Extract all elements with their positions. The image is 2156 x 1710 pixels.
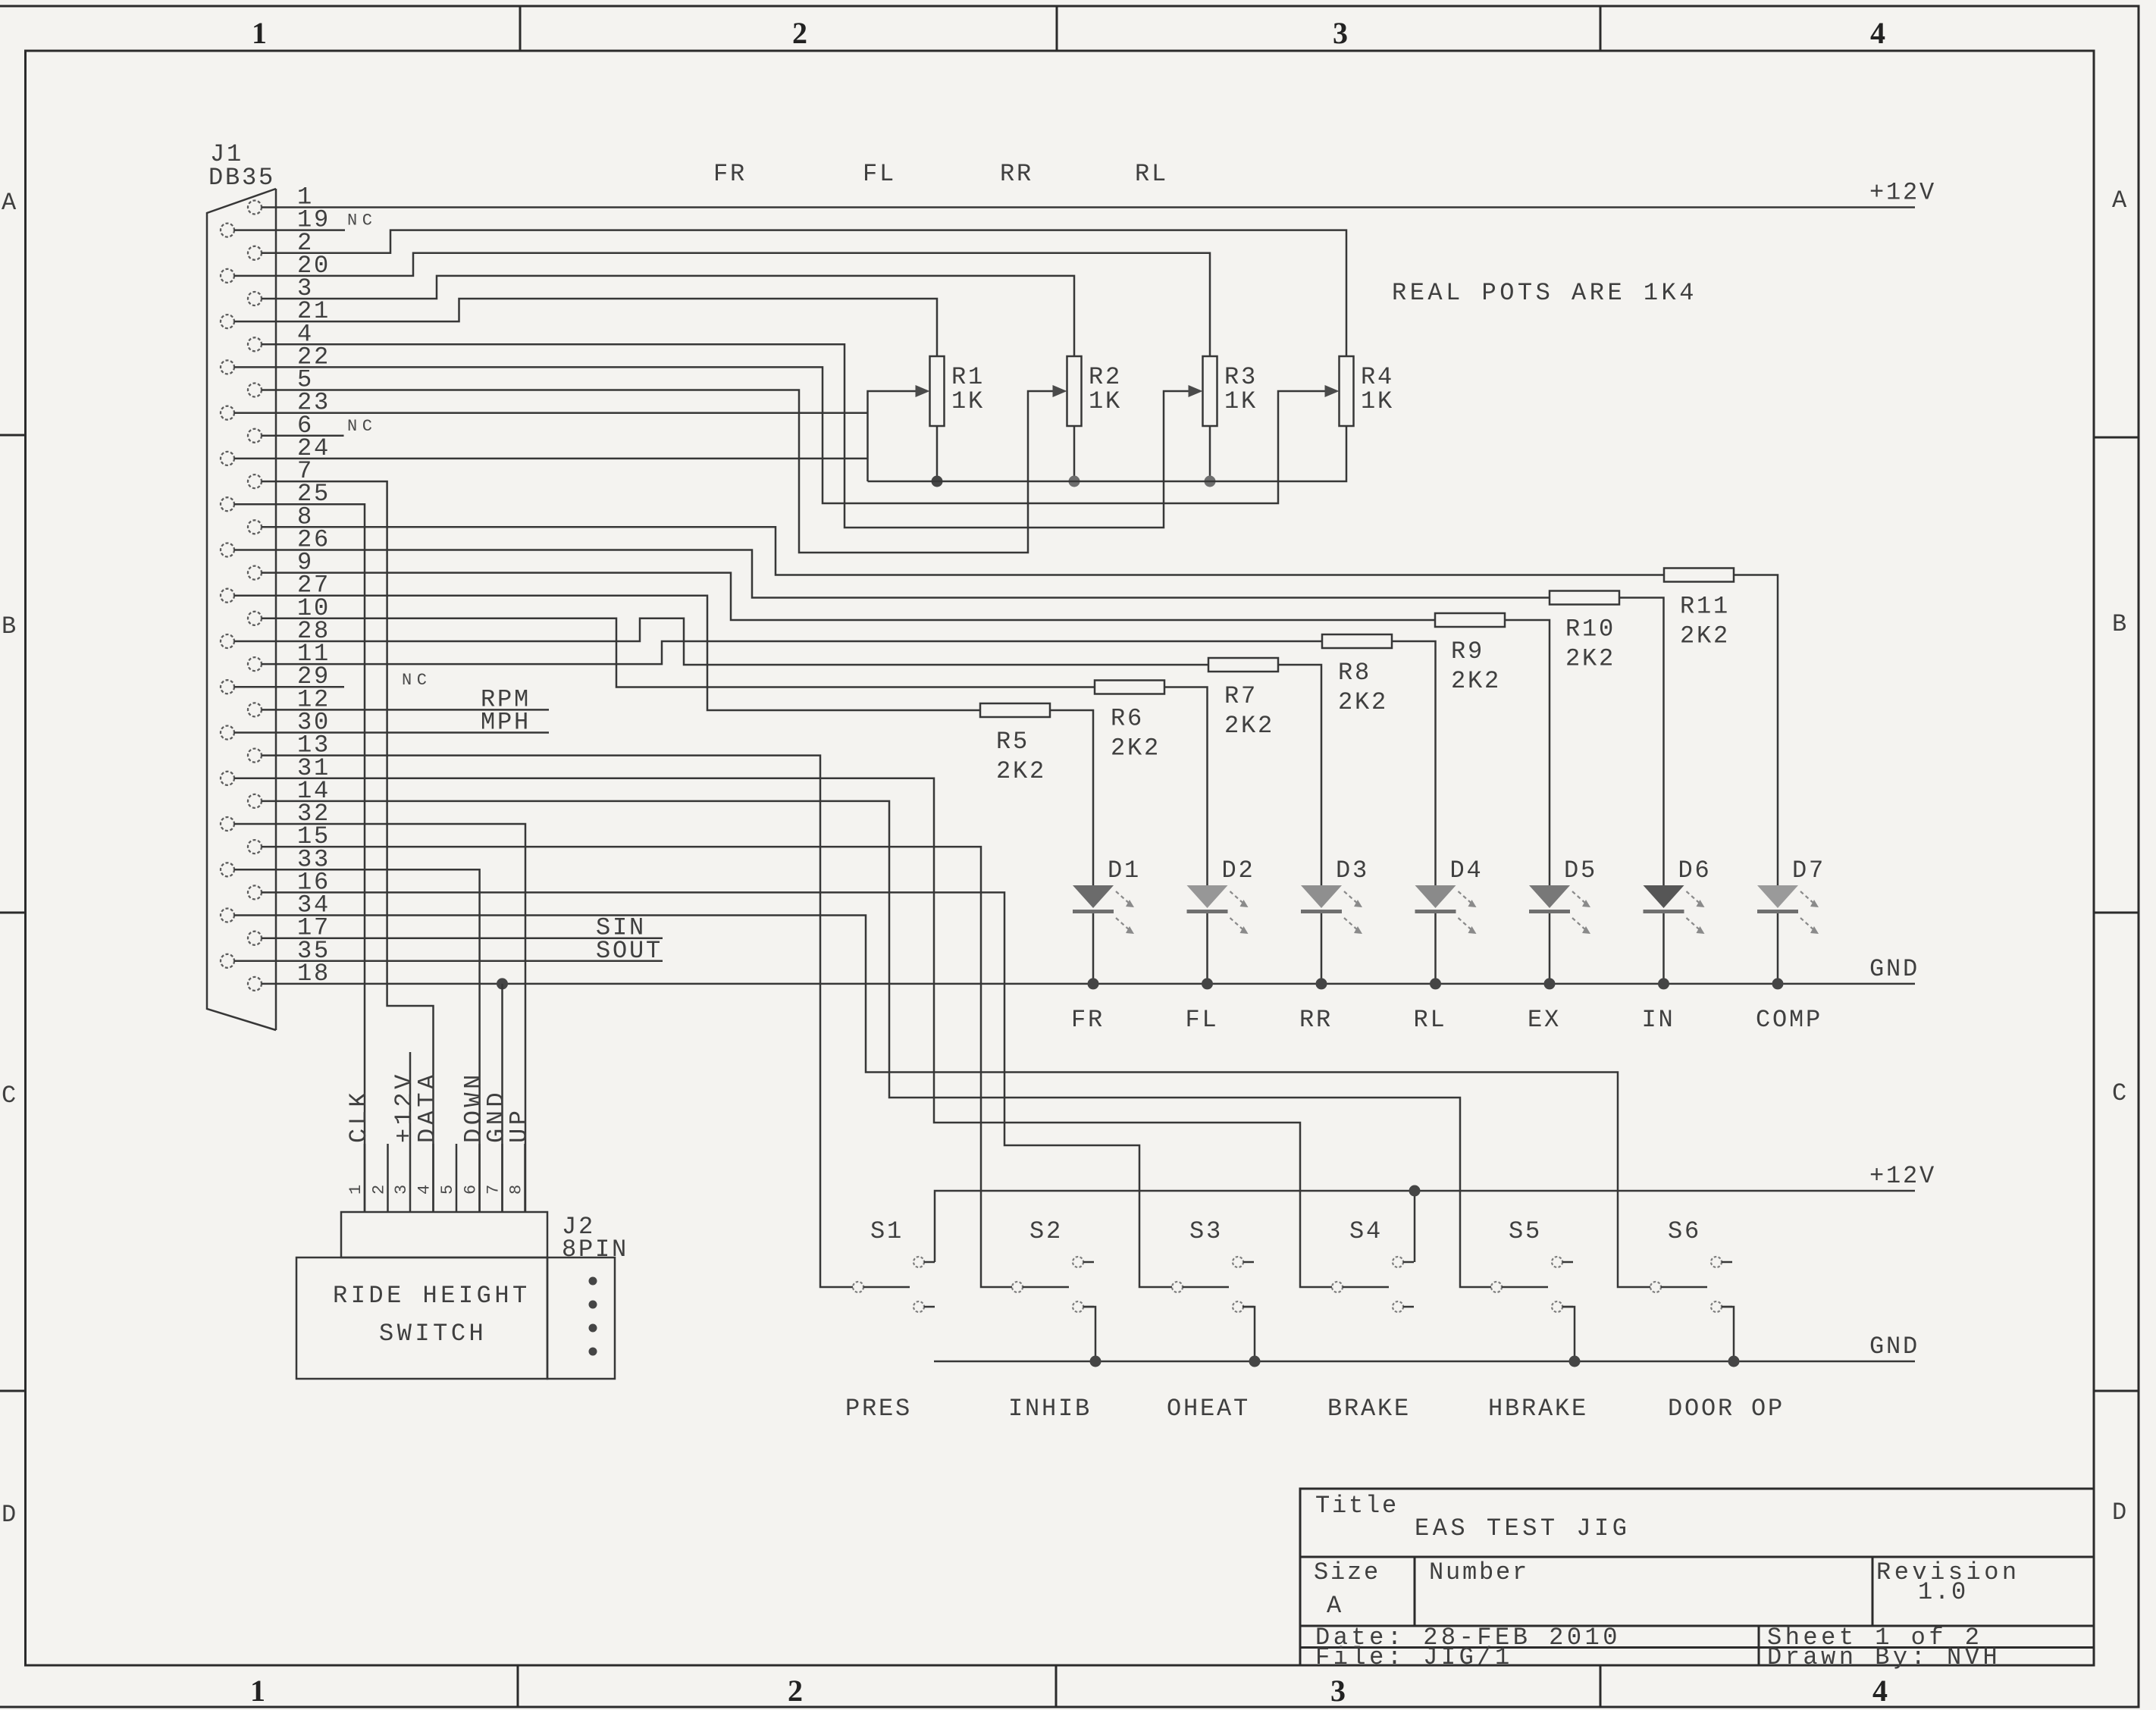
svg-text:2K2: 2K2 bbox=[1111, 734, 1161, 763]
J1 pin 18 circle bbox=[248, 977, 262, 991]
svg-text:RIDE HEIGHT: RIDE HEIGHT bbox=[333, 1282, 531, 1310]
wire R7 to LED column bbox=[1278, 665, 1321, 885]
svg-text:EAS TEST JIG: EAS TEST JIG bbox=[1415, 1514, 1630, 1542]
wire R6 to LED column bbox=[1164, 687, 1208, 886]
svg-text:1: 1 bbox=[252, 16, 267, 50]
svg-text:2K2: 2K2 bbox=[996, 757, 1046, 785]
svg-text:R11: R11 bbox=[1680, 593, 1730, 621]
J2 pin 4 stub bbox=[432, 1144, 434, 1212]
svg-text:S3: S3 bbox=[1189, 1217, 1223, 1245]
J1 pin 22 circle bbox=[221, 360, 234, 374]
J1 pin 1 circle bbox=[248, 201, 262, 215]
J2 body dot 3 bbox=[589, 1324, 597, 1333]
svg-text:EX: EX bbox=[1528, 1006, 1561, 1034]
wire J1.14 to S5 common bbox=[262, 801, 1491, 1287]
svg-text:S5: S5 bbox=[1509, 1217, 1542, 1245]
svg-text:NC: NC bbox=[402, 671, 431, 690]
J2 body dot 1 bbox=[589, 1277, 597, 1286]
svg-text:REAL POTS ARE 1K4: REAL POTS ARE 1K4 bbox=[1392, 279, 1697, 307]
svg-text:R5: R5 bbox=[996, 728, 1029, 756]
connector J2 body box bbox=[547, 1257, 615, 1379]
junction dot GND rail at S6 bbox=[1728, 1356, 1740, 1367]
wire R3 bottom to pot rail bbox=[1209, 426, 1211, 481]
svg-text:+12V: +12V bbox=[1869, 179, 1936, 207]
svg-text:RR: RR bbox=[1299, 1006, 1333, 1034]
title block divider number/revision bbox=[1872, 1557, 1874, 1626]
wire S1 upper throw riser / +12V switch rail bbox=[935, 1191, 1915, 1262]
J2 pin 1 stub bbox=[364, 1144, 366, 1212]
potentiometer R1 body bbox=[930, 356, 945, 426]
svg-text:2K2: 2K2 bbox=[1338, 688, 1388, 716]
wire J1.24 to pot bottom rail bbox=[234, 458, 868, 460]
wire J1.12 RPM net bbox=[262, 709, 549, 711]
resistor R10 body bbox=[1550, 591, 1619, 605]
wire R10 to LED column bbox=[1619, 598, 1664, 886]
svg-text:2K2: 2K2 bbox=[1224, 712, 1274, 740]
J2 pin 3 stub bbox=[409, 1052, 412, 1212]
connector J1 DB35 body outline bbox=[207, 189, 276, 1030]
wire J1.35 SOUT net bbox=[234, 960, 663, 963]
wire R5 to LED column bbox=[1050, 710, 1093, 885]
ride height switch box bbox=[296, 1257, 547, 1379]
wire R1 bottom to pot rail bbox=[936, 426, 939, 481]
wire J1.3 to R2 top bbox=[262, 276, 1074, 356]
J1 pin 30 circle bbox=[221, 726, 234, 740]
wire J1.27 to R5 bbox=[234, 596, 980, 710]
J1 pin 4 circle bbox=[248, 337, 262, 351]
svg-text:CLK: CLK bbox=[345, 1089, 373, 1143]
J1 pin 5 circle bbox=[248, 384, 262, 397]
svg-text:D7: D7 bbox=[1792, 857, 1825, 885]
svg-text:1K: 1K bbox=[1089, 387, 1122, 415]
wire J1.5 to R2 wiper bbox=[262, 390, 1060, 553]
svg-text:SWITCH: SWITCH bbox=[379, 1320, 487, 1348]
switch S3 bbox=[1172, 1257, 1254, 1312]
J1 pin 14 circle bbox=[248, 794, 262, 808]
junction dot GND rail at S2 bbox=[1090, 1356, 1102, 1367]
svg-text:GND: GND bbox=[1869, 1333, 1919, 1361]
svg-text:S4: S4 bbox=[1349, 1217, 1383, 1245]
J1 pin 7 circle bbox=[248, 474, 262, 488]
svg-text:2: 2 bbox=[370, 1179, 389, 1195]
column tick marks top bbox=[520, 6, 1600, 51]
J1 pin 27 circle bbox=[221, 589, 234, 603]
wire pot bottom rail bbox=[868, 426, 1347, 481]
J1 pin 35 circle bbox=[221, 954, 234, 968]
wire J1.32 to J2 pin8 (UP) bbox=[234, 824, 525, 1212]
svg-text:R6: R6 bbox=[1111, 705, 1144, 733]
svg-text:3: 3 bbox=[1330, 1674, 1346, 1708]
svg-text:A: A bbox=[2, 189, 18, 217]
svg-text:B: B bbox=[2112, 610, 2129, 638]
J1 pin 34 circle bbox=[221, 909, 234, 922]
svg-text:RR: RR bbox=[1000, 160, 1033, 188]
wire S5 lower throw to GND rail bbox=[1562, 1307, 1575, 1361]
svg-text:IN: IN bbox=[1642, 1006, 1675, 1034]
svg-text:C: C bbox=[2112, 1079, 2129, 1107]
svg-text:B: B bbox=[2, 612, 18, 640]
connector J2 header box bbox=[341, 1212, 547, 1257]
LED D1 bbox=[1073, 885, 1134, 984]
svg-text:8PIN: 8PIN bbox=[562, 1236, 628, 1264]
svg-text:2K2: 2K2 bbox=[1451, 667, 1501, 695]
wire J1.20 to R3 top bbox=[234, 253, 1210, 356]
svg-text:D5: D5 bbox=[1564, 857, 1597, 885]
svg-text:D2: D2 bbox=[1222, 857, 1255, 885]
wire GND switch rail bbox=[934, 1361, 1915, 1363]
svg-text:R7: R7 bbox=[1224, 682, 1258, 710]
LED D7 bbox=[1757, 885, 1819, 984]
svg-text:D1: D1 bbox=[1108, 857, 1141, 885]
svg-text:1K: 1K bbox=[1224, 387, 1258, 415]
J1 pin 12 circle bbox=[248, 703, 262, 716]
J1 pin 19 circle bbox=[221, 224, 234, 237]
svg-text:Title: Title bbox=[1315, 1492, 1399, 1520]
resistor R5 body bbox=[980, 703, 1050, 717]
wire J1.17 SIN net bbox=[262, 937, 663, 939]
junction dot GND rail at D7 bbox=[1772, 978, 1784, 989]
column tick marks bottom bbox=[518, 1665, 1600, 1707]
junction dot pot rail at R2 bbox=[1069, 476, 1080, 487]
wire S6 lower throw to GND rail bbox=[1722, 1307, 1734, 1361]
J1 pin 9 circle bbox=[248, 566, 262, 580]
J1 pin 21 circle bbox=[221, 315, 234, 328]
J1 pin 33 circle bbox=[221, 863, 234, 876]
title block divider size/number bbox=[1414, 1557, 1416, 1626]
J1 pin 17 circle bbox=[248, 932, 262, 945]
switch S1 bbox=[853, 1257, 935, 1312]
wire J1.15 to S2 common bbox=[262, 847, 1012, 1287]
switch S5 bbox=[1491, 1257, 1573, 1312]
svg-text:5: 5 bbox=[438, 1179, 457, 1195]
svg-text:6: 6 bbox=[462, 1179, 481, 1195]
J2 pin 6 stub bbox=[478, 1144, 481, 1212]
potentiometer R3 wiper arrow bbox=[1189, 385, 1203, 397]
svg-text:INHIB: INHIB bbox=[1008, 1395, 1092, 1423]
potentiometer R3 body bbox=[1203, 356, 1217, 426]
junction dot GND rail at S3 bbox=[1249, 1356, 1261, 1367]
wire J1.16 to S3 common bbox=[262, 892, 1172, 1287]
J1 pin 20 circle bbox=[221, 269, 234, 283]
J1 pin 13 circle bbox=[248, 749, 262, 763]
svg-text:S2: S2 bbox=[1029, 1217, 1063, 1245]
svg-text:2: 2 bbox=[788, 1674, 803, 1708]
J1 pin 11 circle bbox=[248, 657, 262, 671]
J1 pin 15 circle bbox=[248, 840, 262, 853]
svg-text:NC: NC bbox=[347, 417, 377, 436]
resistor R9 body bbox=[1435, 613, 1505, 627]
wire R2 bottom to pot rail bbox=[1073, 426, 1076, 481]
svg-text:1: 1 bbox=[346, 1179, 365, 1195]
svg-text:DB35: DB35 bbox=[208, 164, 275, 192]
J2 pin 5 stub bbox=[456, 1144, 458, 1212]
wire S2 lower throw to GND rail bbox=[1083, 1307, 1095, 1361]
LED D5 bbox=[1529, 885, 1590, 984]
svg-text:R9: R9 bbox=[1451, 637, 1484, 666]
svg-text:PRES: PRES bbox=[845, 1395, 912, 1423]
J1 pin 26 circle bbox=[221, 543, 234, 557]
svg-text:1.0: 1.0 bbox=[1918, 1578, 1968, 1606]
wire J1.10 to R6 bbox=[262, 619, 1095, 687]
wire J1.26 to R10 bbox=[234, 550, 1550, 598]
wire S4 upper throw riser to +12V rail bbox=[1414, 1191, 1416, 1262]
J2 pin 2 stub bbox=[387, 1144, 389, 1212]
J1 pin 6 circle bbox=[248, 429, 262, 443]
svg-text:D: D bbox=[2112, 1499, 2129, 1527]
svg-text:FR: FR bbox=[1071, 1006, 1105, 1034]
junction dot GND rail at S5 bbox=[1569, 1356, 1581, 1367]
row tick marks right bbox=[2094, 437, 2139, 1391]
svg-text:File: JIG/1: File: JIG/1 bbox=[1315, 1643, 1513, 1671]
resistor R8 body bbox=[1322, 634, 1392, 648]
wire J1.4 to R3 wiper bbox=[262, 344, 1196, 528]
junction dot pot rail at R3 bbox=[1205, 476, 1216, 487]
title block outline bbox=[1300, 1489, 2094, 1665]
LED D2 bbox=[1187, 885, 1249, 984]
svg-text:HBRAKE: HBRAKE bbox=[1488, 1395, 1588, 1423]
svg-text:7: 7 bbox=[484, 1179, 503, 1195]
svg-text:3: 3 bbox=[392, 1179, 411, 1195]
svg-text:DOOR OP: DOOR OP bbox=[1668, 1395, 1785, 1423]
potentiometer R1 wiper arrow bbox=[916, 385, 930, 397]
wire GND rail to J2 pin7 (GND) bbox=[501, 984, 503, 1212]
J1 pin 10 circle bbox=[248, 612, 262, 625]
wire J1.28 to R7 (crossover jog) bbox=[234, 619, 1208, 665]
J1 pin 29 circle bbox=[221, 680, 234, 694]
svg-text:RL: RL bbox=[1135, 160, 1168, 188]
wire J1.34 to S6 common bbox=[234, 916, 1650, 1288]
svg-text:Number: Number bbox=[1429, 1558, 1529, 1586]
J1 pin 25 circle bbox=[221, 497, 234, 511]
svg-text:4: 4 bbox=[1872, 1674, 1888, 1708]
svg-text:1K: 1K bbox=[951, 387, 985, 415]
wire S3 lower throw to GND rail bbox=[1243, 1307, 1255, 1361]
svg-text:FL: FL bbox=[863, 160, 896, 188]
junction dot pot rail at R1 bbox=[932, 476, 943, 487]
J2 pin 8 stub bbox=[524, 1144, 526, 1212]
resistor R11 body bbox=[1664, 568, 1734, 582]
junction dot GND rail at D3 bbox=[1316, 978, 1327, 989]
svg-text:Size: Size bbox=[1314, 1558, 1380, 1586]
svg-text:R10: R10 bbox=[1565, 615, 1615, 644]
J1 pin 31 circle bbox=[221, 772, 234, 785]
switch S6 bbox=[1650, 1257, 1732, 1312]
junction dot GND rail at D5 bbox=[1544, 978, 1556, 989]
svg-text:A: A bbox=[1327, 1592, 1343, 1620]
wire J1.9 to R9 bbox=[262, 573, 1435, 620]
J1 pin 28 circle bbox=[221, 634, 234, 648]
svg-text:FL: FL bbox=[1186, 1006, 1219, 1034]
svg-text:C: C bbox=[2, 1082, 18, 1110]
wire J1.25 to J2 pin1 (CLK) bbox=[234, 504, 365, 1212]
LED D3 bbox=[1301, 885, 1362, 984]
wire J1.18 GND rail bbox=[262, 983, 1915, 985]
wire R9 to LED column bbox=[1505, 620, 1550, 885]
svg-text:+12V: +12V bbox=[1869, 1162, 1936, 1190]
J1 pin 3 circle bbox=[248, 292, 262, 305]
junction on GND rail to J2 pin7 bbox=[497, 978, 508, 989]
svg-text:D: D bbox=[2, 1501, 18, 1529]
wire J1.11 to R8 (crossover jog) bbox=[262, 641, 1322, 664]
potentiometer R2 wiper arrow bbox=[1053, 385, 1067, 397]
svg-text:DATA: DATA bbox=[414, 1071, 442, 1143]
row tick marks left bbox=[0, 435, 26, 1391]
svg-text:GND: GND bbox=[1869, 955, 1919, 983]
junction dot GND rail at D6 bbox=[1658, 978, 1669, 989]
wire J1.30 MPH net bbox=[234, 731, 549, 734]
svg-text:S6: S6 bbox=[1668, 1217, 1701, 1245]
wire J1.23 to pot common riser bbox=[234, 412, 868, 414]
potentiometer R2 body bbox=[1067, 356, 1082, 426]
J1 pin 24 circle bbox=[221, 452, 234, 465]
svg-text:2K2: 2K2 bbox=[1680, 622, 1730, 650]
wire R8 to LED column bbox=[1392, 641, 1436, 885]
svg-text:4: 4 bbox=[415, 1179, 434, 1195]
J2 body dot 2 bbox=[589, 1301, 597, 1309]
svg-text:OHEAT: OHEAT bbox=[1167, 1395, 1250, 1423]
wire J1.22 to R4 wiper bbox=[234, 367, 1332, 503]
resistor R6 body bbox=[1095, 681, 1164, 694]
svg-text:1: 1 bbox=[250, 1674, 265, 1708]
wire R11 to LED column bbox=[1734, 575, 1778, 886]
J1 pin 23 circle bbox=[221, 406, 234, 420]
junction dot GND rail at D2 bbox=[1202, 978, 1213, 989]
wire J1.21 to R1 top bbox=[234, 299, 937, 356]
svg-text:UP: UP bbox=[506, 1107, 534, 1143]
junction dot +12V rail at S4 bbox=[1409, 1185, 1421, 1197]
wire J1.6 NC stub bbox=[262, 435, 344, 437]
svg-text:MPH: MPH bbox=[481, 709, 531, 737]
junction dot GND rail at D1 bbox=[1088, 978, 1099, 989]
svg-text:BRAKE: BRAKE bbox=[1327, 1395, 1411, 1423]
J1 pin 32 circle bbox=[221, 817, 234, 831]
LED D4 bbox=[1415, 885, 1477, 984]
svg-text:NC: NC bbox=[347, 211, 377, 230]
wire J1.19 NC stub bbox=[234, 229, 345, 231]
junction dot GND rail at D4 bbox=[1430, 978, 1441, 989]
svg-text:COMP: COMP bbox=[1756, 1006, 1822, 1034]
J2 pin 7 stub bbox=[501, 1144, 503, 1212]
svg-text:A: A bbox=[2112, 186, 2129, 215]
LED D6 bbox=[1644, 885, 1705, 984]
wire J1.33 to J2 pin6 (DOWN) bbox=[234, 869, 480, 1212]
svg-text:RL: RL bbox=[1414, 1006, 1447, 1034]
svg-text:1K: 1K bbox=[1361, 387, 1394, 415]
svg-text:D4: D4 bbox=[1450, 857, 1484, 885]
svg-text:R8: R8 bbox=[1338, 659, 1371, 687]
svg-text:D3: D3 bbox=[1336, 857, 1369, 885]
title block divider sheet/drawn bbox=[1758, 1626, 1760, 1665]
svg-text:FR: FR bbox=[713, 160, 747, 188]
J2 body dot 4 bbox=[589, 1348, 597, 1356]
J1 pin 2 circle bbox=[248, 246, 262, 260]
wire J1.29 NC stub bbox=[234, 686, 344, 688]
wire J1.7 to J2 pin4 (DATA) bbox=[262, 481, 434, 1212]
svg-text:Drawn By: NVH: Drawn By: NVH bbox=[1767, 1643, 2001, 1671]
svg-text:S1: S1 bbox=[870, 1217, 904, 1245]
svg-text:D6: D6 bbox=[1678, 857, 1712, 885]
svg-text:2: 2 bbox=[792, 16, 807, 50]
wire J1.2 to R4 top bbox=[262, 230, 1346, 356]
J1 pin 16 circle bbox=[248, 885, 262, 899]
svg-text:8: 8 bbox=[507, 1179, 526, 1195]
svg-text:3: 3 bbox=[1333, 16, 1348, 50]
wire J1.13 to S1 common bbox=[262, 756, 853, 1287]
potentiometer R4 wiper arrow bbox=[1325, 385, 1340, 397]
resistor R7 body bbox=[1208, 658, 1278, 672]
J1 pin 8 circle bbox=[248, 520, 262, 534]
potentiometer R4 body bbox=[1340, 356, 1354, 426]
svg-text:4: 4 bbox=[1870, 16, 1885, 50]
svg-text:2K2: 2K2 bbox=[1565, 645, 1615, 673]
svg-text:SOUT: SOUT bbox=[596, 937, 663, 965]
switch S2 bbox=[1012, 1257, 1094, 1312]
switch S4 bbox=[1332, 1257, 1414, 1312]
wire J1.31 to S4 common bbox=[234, 778, 1332, 1287]
wire pot common riser (R1 wiper / bottom rail) bbox=[868, 391, 917, 481]
wire J1.8 to R11 bbox=[262, 527, 1664, 575]
wire J1.1 to +12V rail bbox=[262, 206, 1915, 208]
